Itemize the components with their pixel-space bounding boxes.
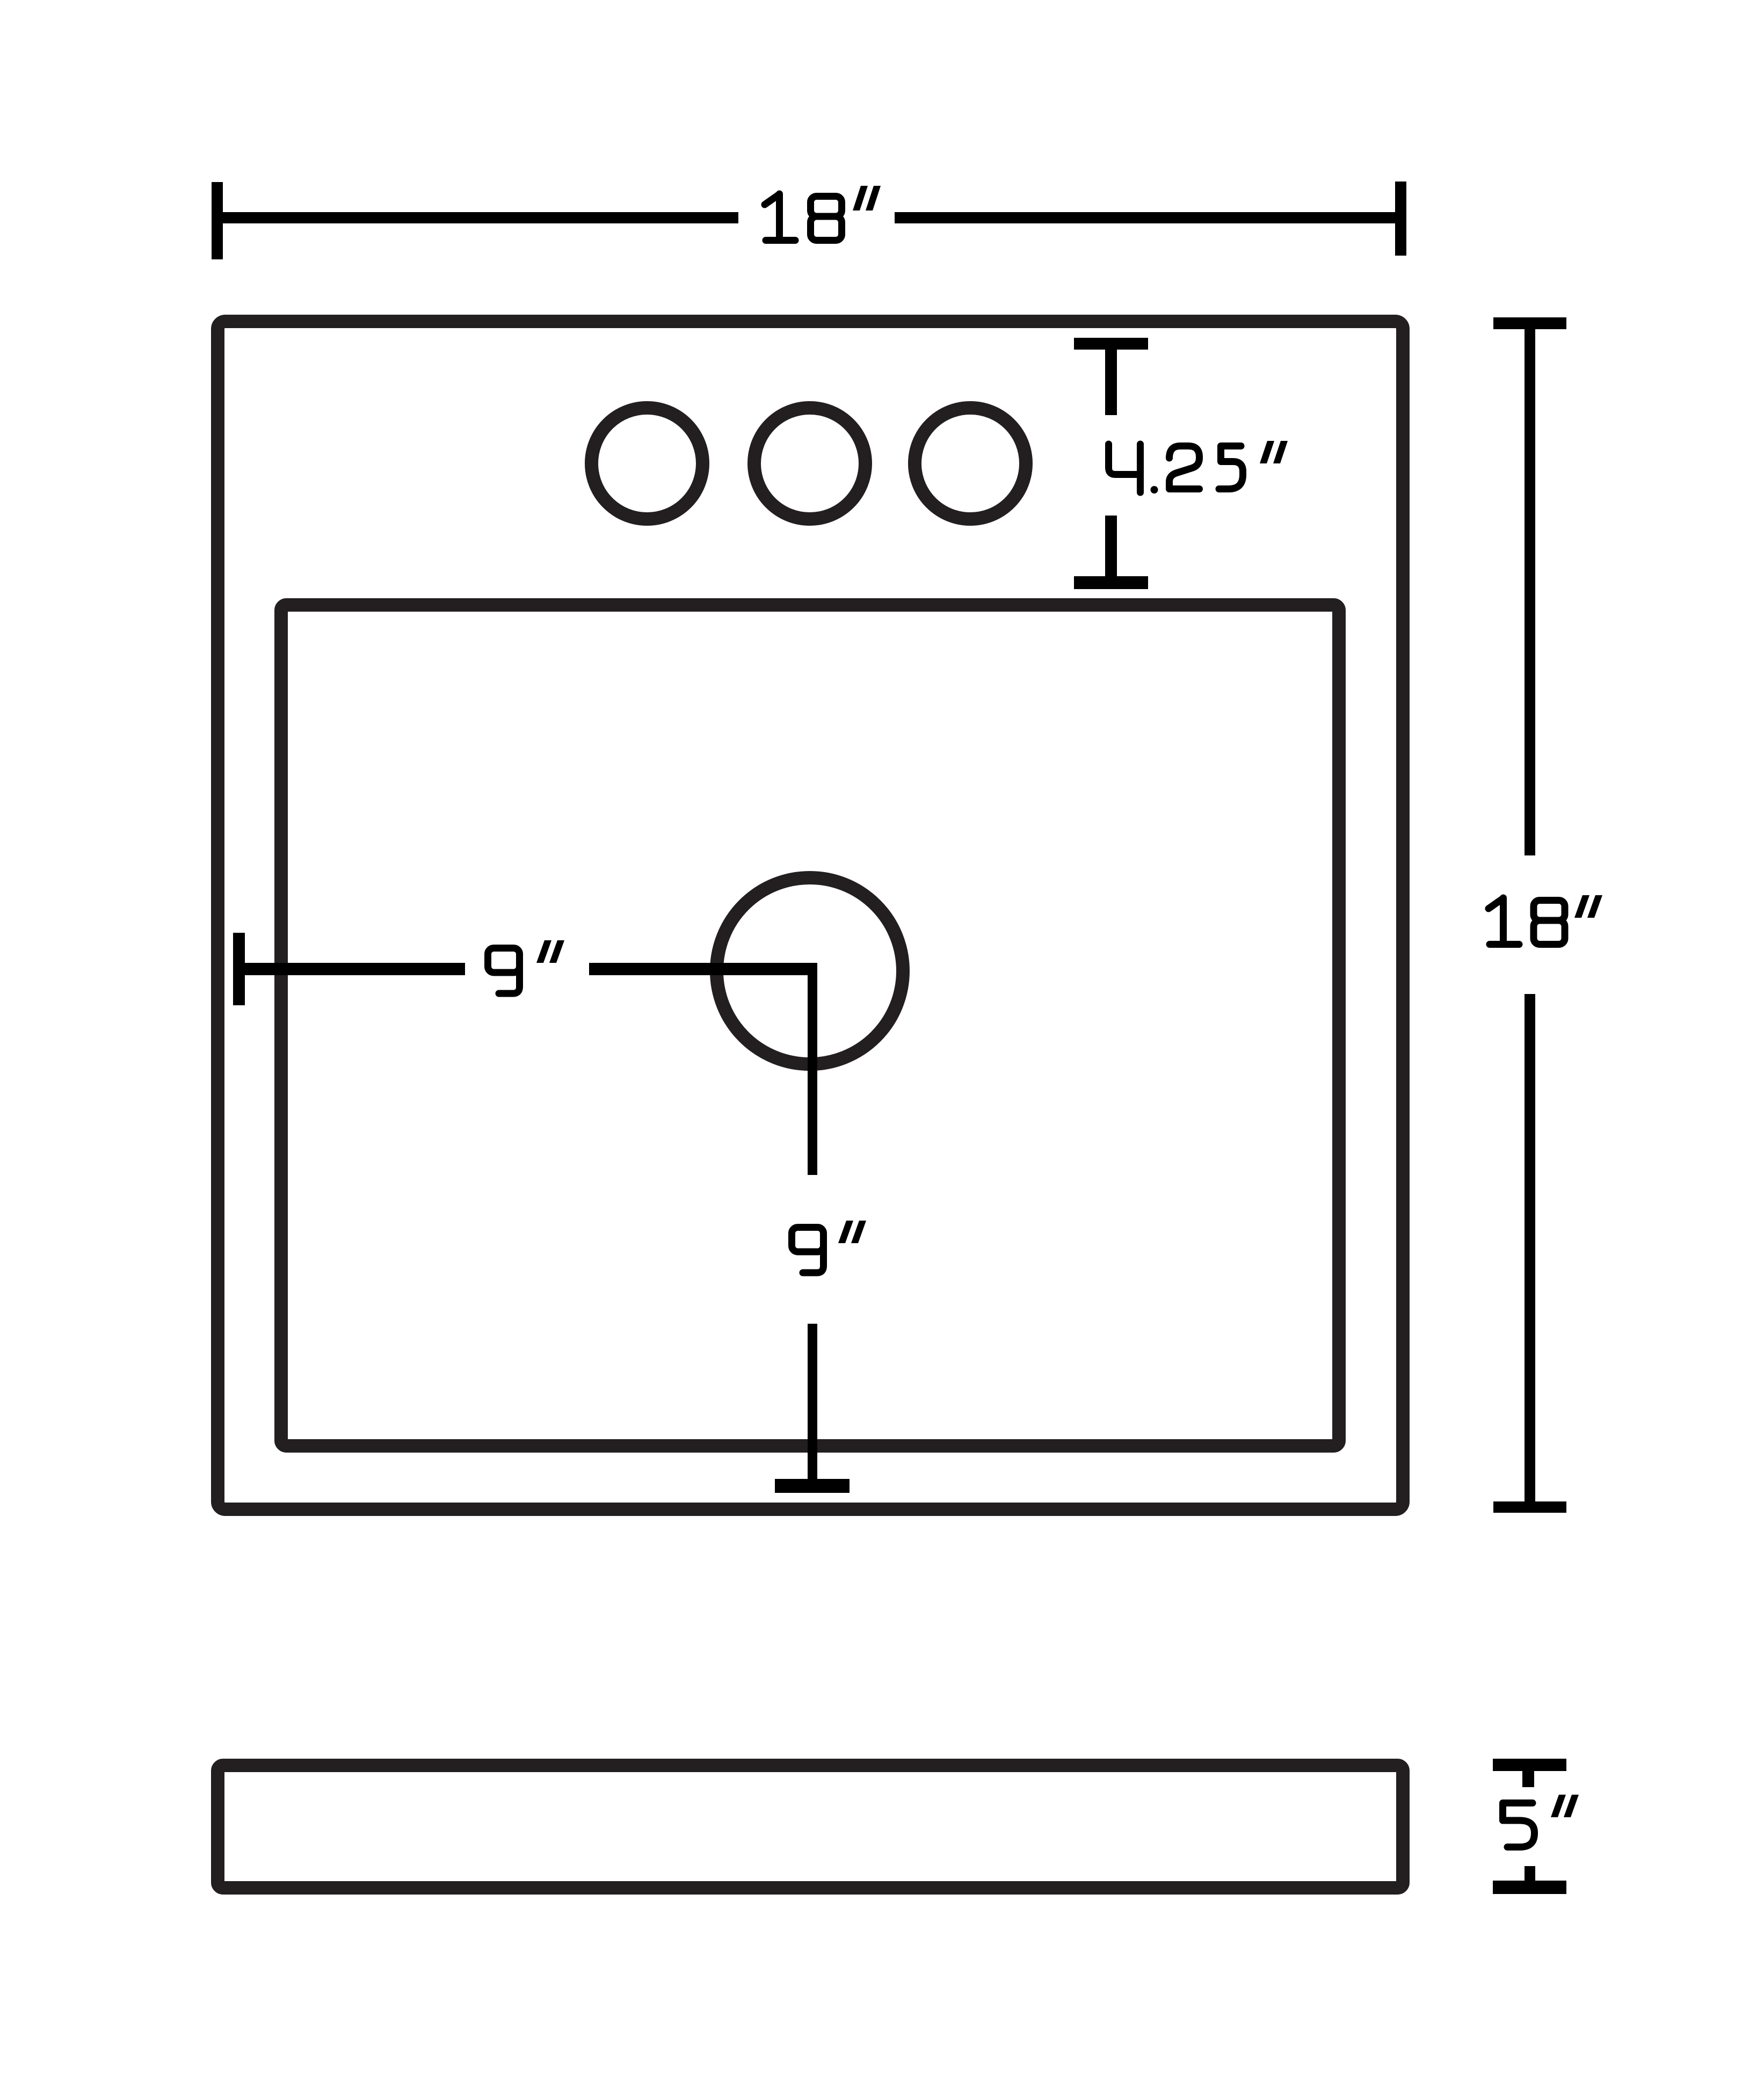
label 18" (right) [1489, 898, 1565, 945]
label 18" (top) [765, 194, 842, 241]
faucet hole right [915, 408, 1026, 519]
label 4.25" [1109, 444, 1243, 492]
thickness dimension 5" [1493, 1765, 1566, 1888]
label 9" (vertical) [792, 1228, 824, 1273]
label 5" [1503, 1803, 1535, 1847]
faucet hole center [754, 408, 866, 519]
drain circle [717, 878, 903, 1064]
label 9" (horizontal) [488, 948, 520, 994]
right height dimension 18" [1493, 323, 1566, 1507]
top width dimension line 18" [217, 182, 1401, 259]
drain x-offset dimension 9" [239, 933, 817, 1005]
sink outer rim (top view) [218, 322, 1403, 1510]
sink side profile [218, 1766, 1403, 1888]
faucet offset dimension 4.25" [1074, 344, 1148, 583]
basin rect [281, 605, 1339, 1446]
faucet hole left [592, 408, 703, 519]
drain y-offset dimension 9" [775, 964, 850, 1486]
